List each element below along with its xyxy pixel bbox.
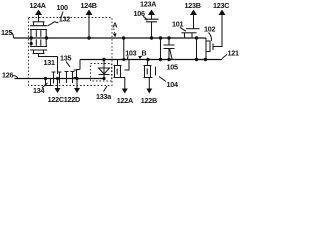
svg-text:122A: 122A	[117, 96, 133, 105]
transistor 132	[30, 22, 47, 38]
svg-text:105: 105	[167, 63, 178, 72]
node dot wire38 x121.5	[122, 36, 125, 39]
label 105 with leader	[167, 49, 178, 72]
node dot x45.5	[44, 77, 47, 80]
wire: input 126	[2, 71, 104, 80]
svg-text:135: 135	[60, 54, 71, 63]
node dots on y59.5	[102, 58, 105, 61]
svg-text:126: 126	[2, 71, 13, 80]
svg-text:101: 101	[172, 20, 183, 29]
svg-text:121: 121	[228, 49, 239, 58]
transistor 102	[206, 38, 213, 60]
label 133a with leader	[96, 86, 112, 101]
node dot 131 drain leg	[30, 42, 33, 45]
svg-text:122D: 122D	[64, 95, 80, 104]
label 134 with leader	[33, 83, 48, 95]
node A pointer	[112, 20, 117, 37]
label 104 with leader	[159, 77, 178, 90]
svg-text:131: 131	[44, 58, 55, 67]
node dot wire38 x151.5	[150, 36, 153, 39]
svg-text:123A: 123A	[140, 0, 156, 9]
transistor 101	[182, 29, 200, 38]
node dot x56	[56, 77, 59, 80]
dashed box around 133a	[91, 64, 112, 82]
wire: link x160.5	[160, 38, 162, 60]
terminal 122B	[141, 89, 157, 106]
transistor 103	[114, 60, 130, 89]
svg-text:102: 102	[204, 25, 215, 34]
transistor pair on 126: left device	[52, 71, 62, 84]
transistor 104	[144, 60, 156, 89]
transistor 135	[65, 70, 81, 84]
svg-text:122B: 122B	[141, 96, 157, 105]
diode 133a	[99, 60, 110, 79]
label 103 with leader	[125, 49, 136, 59]
svg-text:124A: 124A	[30, 1, 46, 10]
node dot x123.8 lower	[122, 58, 125, 61]
wire: corner to 135	[79, 60, 81, 70]
terminal 124A	[30, 1, 46, 22]
svg-text:124B: 124B	[81, 1, 97, 10]
wire: link x196.5	[196, 38, 198, 60]
terminal 122C	[48, 79, 64, 105]
svg-text:123B: 123B	[185, 1, 201, 10]
label 131	[44, 58, 55, 67]
svg-text:122C: 122C	[48, 95, 64, 104]
node dot wire38 x160.5	[159, 36, 162, 39]
terminal 122D	[64, 79, 80, 105]
capacitor 105	[164, 38, 175, 60]
label 132 with tilde leader	[48, 14, 71, 26]
svg-text:103: 103	[125, 49, 136, 58]
node dot x104 on 126 wire	[102, 77, 105, 80]
label 106 with leader	[134, 9, 148, 21]
svg-text:104: 104	[167, 80, 178, 89]
terminal 124B	[81, 1, 97, 38]
label 135 with leader	[60, 54, 71, 68]
label 100	[57, 3, 68, 18]
wire: gate feed down to bottom pair	[57, 57, 59, 75]
terminal 123C	[213, 1, 229, 47]
node dot wire38 x169	[167, 36, 170, 39]
terminal 122A	[117, 89, 133, 106]
node dot wire38 x196.5	[195, 36, 198, 39]
label 101 with leader	[172, 20, 186, 32]
dashed box 100	[29, 18, 113, 86]
terminal 123A	[140, 0, 156, 19]
svg-text:A: A	[112, 20, 117, 29]
label 102 with leader	[204, 25, 215, 42]
transistor 131	[30, 38, 58, 57]
svg-text:100: 100	[57, 3, 68, 12]
wire: main bus node A at y38	[14, 37, 207, 39]
node dot x77	[75, 77, 78, 80]
svg-text:133a: 133a	[96, 92, 112, 101]
node B pointer	[138, 49, 146, 60]
label 121 with leader	[222, 49, 239, 59]
svg-text:125: 125	[1, 28, 12, 37]
transistor 134 (below wire)	[44, 79, 52, 86]
wire: output bus y59.5	[80, 59, 222, 61]
capacitor 106	[145, 19, 159, 38]
terminal 123B	[185, 1, 201, 29]
terminal 125	[1, 28, 12, 37]
wire: link x123.8 node A to lower bus	[123, 38, 125, 60]
svg-text:132: 132	[59, 14, 70, 23]
svg-text:123C: 123C	[213, 1, 229, 10]
wire: input 125 lead	[10, 33, 14, 39]
node dot wire38 x47	[45, 36, 48, 39]
node dot wire38 x89	[87, 36, 90, 39]
svg-text:B: B	[142, 49, 147, 58]
node dot wire38 x31.5	[30, 36, 33, 39]
